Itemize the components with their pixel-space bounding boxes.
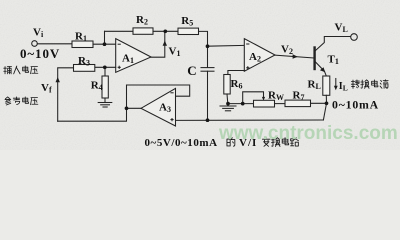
A2 plus: [246, 67, 249, 69]
op-amp A2: [244, 39, 275, 72]
arrow Vf head: [56, 77, 60, 82]
wire R2 to R5: [153, 30, 178, 32]
op-amp A1: [116, 39, 151, 73]
svg-text:C: C: [187, 63, 196, 78]
CJK annotation texts drawn as strokes: [4, 66, 388, 105]
resistor R3: [74, 65, 95, 72]
wire A3 feedback loop: [127, 85, 190, 108]
wire Rw to R7: [275, 103, 286, 105]
A3 minus: [170, 92, 173, 94]
transistor T1 emitter with arrow: [316, 62, 327, 76]
wire C bottom to ground rail: [207, 71, 209, 120]
A2 minus: [246, 43, 249, 45]
resistor R5: [178, 28, 199, 34]
ground under R4: [98, 102, 112, 104]
resistor R4: [104, 67, 106, 76]
wire R3 node to A1 plus input: [95, 66, 116, 68]
wire node to R2 row: [104, 31, 106, 44]
potentiometer Rw: [254, 100, 275, 107]
terminal VL: [351, 34, 358, 41]
resistor R2: [133, 28, 153, 34]
wire R7 to RL bottom node: [311, 102, 327, 104]
transistor T1 base bar: [313, 48, 315, 70]
A1 minus: [118, 43, 121, 45]
resistor R7: [285, 100, 311, 107]
wire node to A2 inverting input: [208, 44, 245, 47]
wire R5 right, down to node: [199, 31, 208, 67]
label 转换电流: [351, 80, 359, 88]
junction node R6 ground: [226, 102, 230, 106]
caption 0~5V/0~10mA 的 V/I 变换电路: [145, 137, 299, 149]
svg-text:IL: IL: [339, 81, 348, 93]
wire A3 output: [127, 107, 142, 109]
junction node A3 output: [125, 106, 129, 110]
junction node Rw wiper: [241, 102, 245, 106]
capacitor C: [201, 67, 214, 69]
transistor T1 collector: [316, 37, 351, 51]
svg-text:0~10mA: 0~10mA: [332, 97, 379, 111]
wire to R2: [105, 30, 134, 32]
junction node RL/R7: [325, 101, 329, 105]
arrow V1 head: [163, 41, 167, 46]
label 输入电压: [4, 66, 12, 73]
arrow IL: [335, 79, 337, 89]
op-amp A3 (points left): [141, 88, 176, 126]
wire A3 plus input to ground rail: [176, 119, 324, 121]
svg-text:0~10V: 0~10V: [20, 46, 60, 61]
svg-text:0~5V/0~10mA: 0~5V/0~10mA: [145, 137, 218, 149]
wire A2 plus input to R6: [228, 71, 244, 75]
terminal Vi: [32, 41, 38, 47]
arrow V2: [293, 54, 298, 59]
ground under R6: [227, 104, 229, 106]
label 参考电压: [5, 97, 11, 105]
resistor RL: [323, 76, 330, 95]
paper background: [0, 0, 400, 150]
svg-text:www.cntronics.com: www.cntronics.com: [218, 123, 398, 144]
potentiometer Rw wiper: [243, 92, 264, 104]
op-amp polarity marks: [118, 44, 250, 121]
wire RL node down to ground rail: [323, 103, 326, 120]
wire R6 node to Rw: [228, 103, 254, 105]
resistor R6: [224, 75, 230, 95]
junction node R5/C/A2-: [206, 44, 210, 48]
wire A1 output up to R2/R5 node, arrow V1: [151, 31, 165, 57]
wire Vi to R1: [37, 43, 72, 45]
wire R3 left to Vf line: [58, 68, 74, 121]
wire A2 output to T1 base: [275, 55, 314, 58]
resistor R1: [72, 41, 93, 48]
junction node R1/A1-: [103, 42, 107, 46]
junction node R3/R4/A1+: [103, 65, 107, 69]
wire R1 to A1 inverting input: [93, 43, 116, 45]
wire Vf bottom to A3 output node: [58, 108, 127, 121]
junction node C/ground rail: [206, 118, 210, 122]
A3 plus: [170, 119, 173, 121]
junction node R2/R5/V1: [163, 29, 167, 33]
A1 plus: [118, 66, 121, 68]
